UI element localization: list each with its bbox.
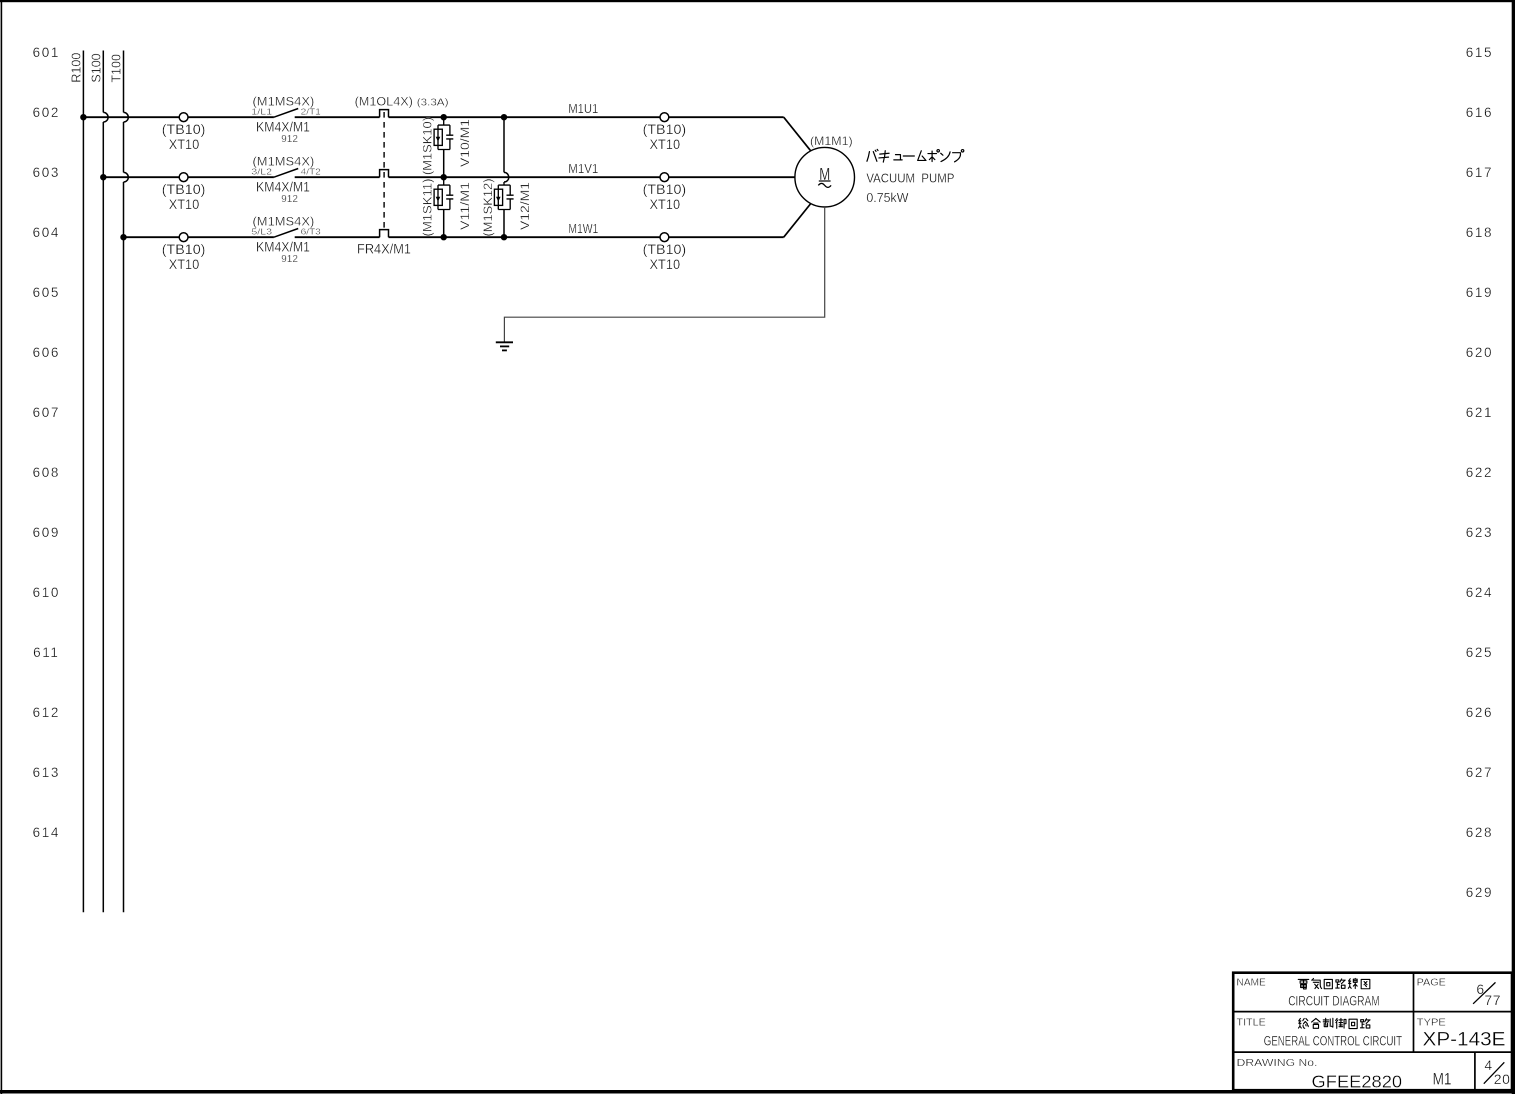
svg-text:XT10: XT10 [650,257,681,272]
junction dot bus S100 row 603 [100,174,106,180]
svg-text:XT10: XT10 [650,197,681,212]
svg-text:DRAWING No.: DRAWING No. [1237,1057,1318,1069]
wire row 602 [83,116,179,118]
svg-text:620: 620 [1466,345,1493,360]
svg-text:S100: S100 [89,53,103,82]
junction dots SK10 [441,114,447,120]
svg-text:(TB10): (TB10) [162,122,206,137]
svg-text:629: 629 [1466,885,1493,900]
svg-text:T100: T100 [110,54,124,83]
surge killer (M1SK10) / V10/M1 [438,117,453,149]
svg-text:XP-143E: XP-143E [1423,1029,1506,1051]
svg-text:20: 20 [1494,1071,1511,1087]
terminal circle XT10 right row 603 [660,173,669,182]
overload heater element row 603 [380,170,389,178]
svg-text:R100: R100 [69,53,83,83]
svg-text:616: 616 [1466,105,1493,120]
title block frame [1233,973,1512,1090]
surge killer (M1SK12) / V12/M1 [498,182,513,210]
svg-text:4/T2: 4/T2 [301,166,321,176]
svg-text:624: 624 [1466,585,1493,600]
contact KM4X/M1 row 603 [274,169,298,178]
svg-text:(TB10): (TB10) [643,182,687,197]
svg-text:GENERAL CONTROL CIRCUIT: GENERAL CONTROL CIRCUIT [1264,1034,1402,1049]
svg-text:(TB10): (TB10) [643,122,687,137]
junction dot SK11 bottom [441,234,447,240]
svg-text:615: 615 [1466,45,1493,60]
svg-text:V12/M1: V12/M1 [518,182,532,230]
svg-text:605: 605 [33,285,60,300]
svg-text:614: 614 [33,825,60,840]
overload heater element row 604 [380,230,389,238]
svg-text:625: 625 [1466,645,1493,660]
svg-text:XT10: XT10 [169,257,200,272]
svg-text:912: 912 [281,194,298,205]
svg-text:(TB10): (TB10) [643,242,687,257]
svg-text:V11/M1: V11/M1 [458,182,472,230]
svg-text:610: 610 [33,585,60,600]
svg-text:619: 619 [1466,285,1493,300]
svg-text:607: 607 [33,405,60,420]
svg-text:626: 626 [1466,705,1493,720]
svg-text:M1W1: M1W1 [568,222,598,236]
svg-text:M1: M1 [1433,1071,1452,1089]
wire diagonal M1W1 to motor [784,204,811,238]
terminal circle XT10 row 604 [179,233,188,242]
svg-text:602: 602 [33,105,60,120]
svg-text:M1U1: M1U1 [568,102,598,116]
contact KM4X/M1 row 602 [274,109,298,118]
svg-text:(M1SK12): (M1SK12) [481,179,495,237]
svg-text:627: 627 [1466,765,1493,780]
svg-text:(M1M1): (M1M1) [810,134,853,148]
svg-text:628: 628 [1466,825,1493,840]
svg-text:GFEE2820: GFEE2820 [1312,1072,1403,1092]
svg-text:603: 603 [33,165,60,180]
svg-text:6/T3: 6/T3 [301,226,321,236]
surge killer M1SK12 top lead from row 602 [503,117,505,172]
ground symbol [496,341,513,343]
border frame [0,0,1515,2]
svg-text:M1V1: M1V1 [568,162,598,176]
svg-text:(TB10): (TB10) [162,182,206,197]
svg-text:622: 622 [1466,465,1493,480]
junction dots SK12 [501,114,507,120]
svg-text:606: 606 [33,345,60,360]
svg-text:KM4X/M1: KM4X/M1 [256,120,310,135]
wire row 603 [103,176,179,178]
svg-text:(M1OL4X): (M1OL4X) [355,96,413,108]
svg-text:601: 601 [33,45,60,60]
bus line S100 [102,51,104,113]
title block name kanji 電気回路線図 [1298,979,1309,989]
svg-text:609: 609 [33,525,60,540]
svg-text:612: 612 [33,705,60,720]
terminal circle XT10 right row 602 [660,113,669,122]
svg-text:(3.3A): (3.3A) [417,97,449,109]
svg-text:0.75kW: 0.75kW [866,190,909,205]
svg-text:XT10: XT10 [169,137,200,152]
svg-text:613: 613 [33,765,60,780]
overload dashed linkage line [383,112,385,230]
svg-text:PAGE: PAGE [1417,977,1446,989]
svg-text:KM4X/M1: KM4X/M1 [256,180,310,195]
svg-text:XT10: XT10 [169,197,200,212]
svg-text:KM4X/M1: KM4X/M1 [256,240,310,255]
terminal circle XT10 row 602 [179,113,188,122]
svg-text:TITLE: TITLE [1237,1016,1266,1028]
svg-text:608: 608 [33,465,60,480]
overload heater element row 602 [380,110,389,118]
svg-text:VACUUM PUMP: VACUUM PUMP [866,171,954,186]
svg-text:V10/M1: V10/M1 [458,119,472,167]
svg-text:618: 618 [1466,225,1493,240]
terminal circle XT10 right row 604 [660,233,669,242]
svg-text:912: 912 [281,134,298,145]
svg-text:3/L2: 3/L2 [251,166,272,176]
svg-text:611: 611 [33,645,59,660]
bus line T100 [123,51,125,113]
title kanji 総合制御回路 [1298,1018,1308,1028]
svg-text:623: 623 [1466,525,1493,540]
junction dot bus T100 row 604 [120,234,126,240]
svg-text:(M1SK11): (M1SK11) [421,179,435,237]
svg-text:NAME: NAME [1237,977,1266,989]
svg-text:77: 77 [1484,992,1501,1008]
svg-text:4: 4 [1484,1057,1492,1073]
svg-text:(M1SK10): (M1SK10) [421,117,435,175]
surge killer (M1SK11) / V11/M1 [438,177,453,209]
svg-text:5/L3: 5/L3 [251,226,272,236]
svg-text:2/T1: 2/T1 [301,106,321,116]
motor ground wire [504,207,824,342]
svg-text:1/L1: 1/L1 [251,106,272,116]
left row numbers 601-614 [33,45,60,840]
wire row 604 [124,236,180,238]
svg-text:912: 912 [281,254,298,265]
right row numbers 615-629 [1466,45,1493,900]
svg-text:FR4X/M1: FR4X/M1 [357,242,411,257]
bus line R100 [82,51,84,913]
svg-text:621: 621 [1466,405,1493,420]
svg-text:XT10: XT10 [650,137,681,152]
contact KM4X/M1 row 604 [274,229,298,238]
svg-text:617: 617 [1466,165,1493,180]
motor M1M1 circle [795,147,855,207]
svg-text:CIRCUIT DIAGRAM: CIRCUIT DIAGRAM [1288,994,1380,1009]
label vacuum pump katakana [867,149,878,161]
svg-text:(TB10): (TB10) [162,242,206,257]
svg-text:TYPE: TYPE [1417,1016,1446,1028]
wire diagonal M1U1 to motor [784,117,811,151]
terminal circle XT10 row 603 [179,173,188,182]
junction dot bus R100 row 602 [80,114,86,120]
svg-text:604: 604 [33,225,60,240]
